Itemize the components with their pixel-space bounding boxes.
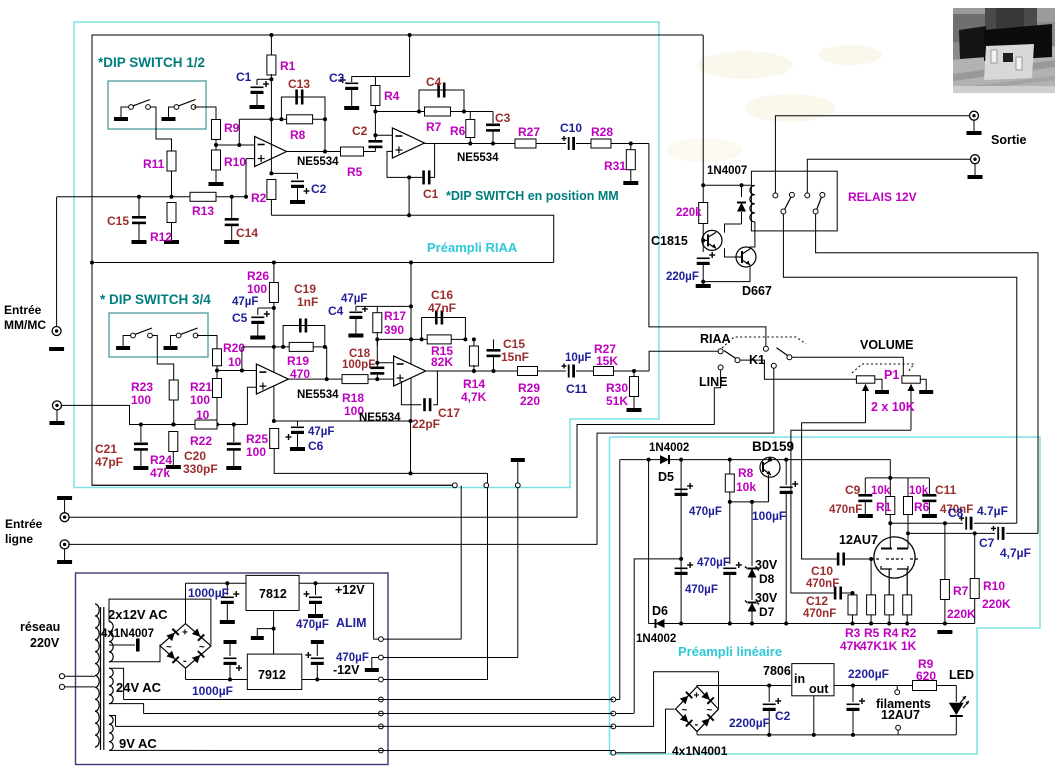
svg-text:220K: 220K — [947, 607, 976, 621]
svg-text:~: ~ — [707, 705, 713, 716]
svg-text:620: 620 — [916, 669, 936, 683]
svg-text:+12V: +12V — [335, 583, 365, 597]
svg-text:4,7µF: 4,7µF — [1000, 546, 1031, 560]
svg-text:R22: R22 — [190, 434, 212, 448]
svg-text:R12: R12 — [150, 230, 172, 244]
svg-text:C4: C4 — [328, 304, 344, 318]
svg-text:*DIP SWITCH en position MM: *DIP SWITCH en position MM — [446, 189, 619, 203]
svg-text:R13: R13 — [192, 204, 214, 218]
svg-text:1N4007: 1N4007 — [707, 165, 747, 177]
svg-text:C15: C15 — [503, 337, 525, 351]
svg-text:réseau: réseau — [20, 620, 60, 634]
svg-text:C6: C6 — [308, 439, 324, 453]
svg-text:R26: R26 — [247, 269, 269, 283]
svg-text:C2: C2 — [311, 182, 327, 196]
svg-text:82K: 82K — [431, 355, 453, 369]
svg-text:R2: R2 — [251, 191, 267, 205]
svg-text:15nF: 15nF — [501, 350, 529, 364]
svg-text:C1: C1 — [423, 187, 439, 201]
svg-text:330pF: 330pF — [183, 462, 218, 476]
svg-text:R31: R31 — [604, 159, 626, 173]
svg-text:-12V: -12V — [333, 663, 360, 677]
svg-text:220: 220 — [520, 394, 540, 408]
svg-text:R30: R30 — [606, 381, 628, 395]
svg-text:C2: C2 — [775, 709, 791, 723]
svg-text:-: - — [183, 655, 187, 667]
svg-text:R17: R17 — [384, 309, 406, 323]
svg-text:470nF: 470nF — [829, 504, 862, 516]
svg-text:C17: C17 — [438, 406, 460, 420]
svg-text:1K: 1K — [882, 639, 898, 653]
svg-text:47k: 47k — [150, 466, 170, 480]
svg-text:4.7µF: 4.7µF — [977, 504, 1008, 518]
svg-text:C16: C16 — [431, 288, 453, 302]
svg-text:C1: C1 — [236, 70, 252, 84]
svg-text:7812: 7812 — [259, 587, 287, 601]
svg-text:4x1N4001: 4x1N4001 — [672, 744, 728, 758]
svg-text:R10: R10 — [224, 155, 246, 169]
svg-text:~: ~ — [199, 642, 205, 653]
svg-text:MM/MC: MM/MC — [4, 318, 46, 332]
svg-text:R14: R14 — [463, 377, 485, 391]
svg-text:* DIP SWITCH 3/4: * DIP SWITCH 3/4 — [100, 292, 211, 307]
svg-text:C15: C15 — [107, 214, 129, 228]
svg-text:1N4002: 1N4002 — [649, 442, 689, 454]
svg-text:220V: 220V — [30, 636, 60, 650]
svg-text:C3: C3 — [329, 71, 345, 85]
svg-text:Préampli RIAA: Préampli RIAA — [427, 240, 518, 255]
svg-text:C12: C12 — [806, 594, 828, 608]
svg-text:1000µF: 1000µF — [188, 586, 229, 600]
svg-text:15K: 15K — [596, 354, 618, 368]
svg-text:100: 100 — [246, 445, 266, 459]
svg-text:D8: D8 — [759, 572, 775, 586]
svg-text:Préampli linéaire: Préampli linéaire — [678, 644, 782, 659]
svg-text:R27: R27 — [518, 125, 540, 139]
svg-text:R9: R9 — [224, 121, 240, 135]
svg-text:47µF: 47µF — [232, 296, 258, 308]
svg-text:2 x 10K: 2 x 10K — [871, 400, 915, 414]
svg-text:4x1N4007: 4x1N4007 — [101, 628, 154, 640]
svg-text:C10: C10 — [811, 564, 833, 578]
svg-text:R7: R7 — [426, 120, 442, 134]
svg-text:NE5534: NE5534 — [457, 152, 499, 164]
svg-text:7806: 7806 — [763, 664, 791, 678]
svg-text:2200µF: 2200µF — [848, 667, 889, 681]
svg-text:R10: R10 — [983, 579, 1005, 593]
svg-text:12AU7: 12AU7 — [839, 533, 878, 547]
svg-text:C11: C11 — [935, 483, 957, 497]
svg-text:NE5534: NE5534 — [359, 412, 401, 424]
svg-text:100: 100 — [247, 282, 267, 296]
svg-text:C11: C11 — [566, 382, 588, 396]
svg-text:2x12V AC: 2x12V AC — [108, 607, 168, 622]
svg-text:220k: 220k — [676, 207, 702, 219]
svg-text:100: 100 — [131, 393, 151, 407]
svg-text:NE5534: NE5534 — [297, 389, 339, 401]
svg-text:R6: R6 — [450, 124, 466, 138]
svg-text:R1: R1 — [876, 500, 892, 514]
svg-text:470nF: 470nF — [803, 608, 836, 620]
svg-text:C5: C5 — [232, 311, 248, 325]
svg-text:C3: C3 — [495, 111, 511, 125]
svg-text:10: 10 — [196, 408, 210, 422]
svg-text:D5: D5 — [658, 470, 674, 484]
svg-text:470µF: 470µF — [685, 584, 718, 596]
svg-text:22pF: 22pF — [412, 417, 440, 431]
svg-text:RELAIS 12V: RELAIS 12V — [848, 190, 917, 204]
svg-text:ALIM: ALIM — [336, 616, 367, 630]
svg-text:10k: 10k — [871, 485, 891, 497]
svg-text:C7: C7 — [979, 536, 995, 550]
svg-text:47K: 47K — [840, 639, 862, 653]
svg-text:10k: 10k — [736, 480, 756, 494]
svg-text:C9: C9 — [845, 483, 861, 497]
svg-text:24V AC: 24V AC — [116, 680, 162, 695]
svg-text:Entrée: Entrée — [4, 303, 42, 317]
svg-text:D667: D667 — [742, 284, 772, 298]
svg-text:~: ~ — [682, 705, 688, 716]
svg-text:LINE: LINE — [699, 375, 727, 389]
svg-text:47µF: 47µF — [308, 426, 334, 438]
svg-text:R21: R21 — [190, 380, 212, 394]
svg-text:LED: LED — [949, 668, 974, 682]
svg-text:47pF: 47pF — [95, 455, 123, 469]
svg-text:*DIP SWITCH 1/2: *DIP SWITCH 1/2 — [98, 55, 205, 70]
svg-text:1000µF: 1000µF — [192, 684, 233, 698]
svg-text:R29: R29 — [518, 381, 540, 395]
svg-text:4,7K: 4,7K — [461, 390, 487, 404]
svg-text:47K: 47K — [860, 639, 882, 653]
svg-text:100µF: 100µF — [752, 509, 786, 523]
svg-text:~: ~ — [166, 642, 172, 653]
svg-text:+: + — [182, 628, 188, 639]
svg-text:12AU7: 12AU7 — [881, 708, 920, 722]
svg-text:ligne: ligne — [5, 532, 33, 546]
svg-text:1N4002: 1N4002 — [636, 633, 676, 645]
svg-text:D6: D6 — [652, 604, 668, 618]
svg-text:+: + — [694, 691, 700, 702]
svg-text:2200µF: 2200µF — [729, 716, 770, 730]
svg-text:C13: C13 — [288, 77, 310, 91]
svg-text:C14: C14 — [236, 226, 258, 240]
svg-text:390: 390 — [384, 323, 404, 337]
svg-text:NE5534: NE5534 — [297, 156, 339, 168]
svg-text:220K: 220K — [982, 597, 1011, 611]
svg-text:30V: 30V — [755, 591, 778, 605]
svg-text:30V: 30V — [755, 558, 778, 572]
svg-text:D7: D7 — [759, 605, 775, 619]
svg-text:R7: R7 — [953, 584, 969, 598]
svg-text:7912: 7912 — [258, 668, 286, 682]
svg-text:R3: R3 — [845, 626, 861, 640]
svg-text:R24: R24 — [150, 453, 172, 467]
svg-text:470µF: 470µF — [697, 557, 730, 569]
svg-text:-: - — [695, 719, 699, 731]
svg-text:R11: R11 — [143, 157, 165, 171]
svg-text:in: in — [794, 672, 805, 686]
svg-text:47µF: 47µF — [341, 293, 367, 305]
svg-text:BD159: BD159 — [752, 439, 794, 454]
svg-text:R8: R8 — [738, 466, 754, 480]
svg-text:470µF: 470µF — [296, 619, 329, 631]
svg-text:R4: R4 — [384, 89, 400, 103]
svg-text:Entrée: Entrée — [5, 517, 43, 531]
svg-text:1nF: 1nF — [297, 295, 318, 309]
svg-text:R2: R2 — [901, 626, 917, 640]
svg-text:P1: P1 — [884, 368, 899, 382]
svg-text:C8: C8 — [948, 506, 964, 520]
svg-text:R23: R23 — [131, 380, 153, 394]
svg-text:C19: C19 — [294, 282, 316, 296]
svg-text:51K: 51K — [606, 394, 628, 408]
svg-text:C4: C4 — [426, 75, 442, 89]
svg-text:VOLUME: VOLUME — [860, 338, 913, 352]
svg-text:R25: R25 — [246, 432, 268, 446]
svg-text:RIAA: RIAA — [700, 332, 731, 346]
svg-text:470µF: 470µF — [689, 506, 722, 518]
svg-text:R1: R1 — [280, 59, 296, 73]
svg-text:100: 100 — [190, 393, 210, 407]
svg-text:R4: R4 — [883, 626, 899, 640]
svg-text:220µF: 220µF — [666, 271, 699, 283]
svg-text:out: out — [809, 682, 829, 696]
svg-text:C20: C20 — [184, 449, 206, 463]
svg-text:47nF: 47nF — [428, 301, 456, 315]
svg-text:C2: C2 — [352, 124, 368, 138]
svg-text:C10: C10 — [560, 121, 582, 135]
svg-text:R5: R5 — [347, 165, 363, 179]
svg-text:R28: R28 — [591, 125, 613, 139]
svg-text:R19: R19 — [287, 354, 309, 368]
svg-text:1K: 1K — [901, 639, 917, 653]
svg-text:100pF: 100pF — [342, 359, 375, 371]
svg-text:10µF: 10µF — [565, 352, 591, 364]
svg-text:C1815: C1815 — [651, 234, 688, 248]
svg-text:C21: C21 — [95, 442, 117, 456]
svg-text:R8: R8 — [290, 128, 306, 142]
svg-text:R18: R18 — [342, 391, 364, 405]
svg-text:10: 10 — [228, 355, 242, 369]
svg-text:Sortie: Sortie — [991, 133, 1026, 147]
svg-text:9V AC: 9V AC — [119, 736, 157, 751]
svg-text:R5: R5 — [864, 626, 880, 640]
